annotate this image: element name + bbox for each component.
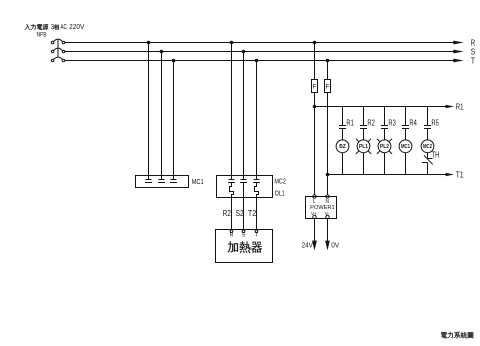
- contact MC1 pole x=148.5: [145, 180, 152, 183]
- wire rail T1: [328, 174, 447, 176]
- load MC2 circle: [421, 140, 434, 153]
- svg-text:POWER1: POWER1: [310, 205, 334, 211]
- svg-text:R: R: [230, 233, 234, 239]
- contactor box MC2 / overload OL1: [217, 176, 273, 198]
- junction node (327.5,60.5): [326, 59, 330, 63]
- breaker NFB (3-pole): [51, 39, 65, 62]
- contact MC2 pole x=256.5: [253, 180, 260, 183]
- wire contact to load BZ: [342, 129, 344, 140]
- wire branch 3 lower: [384, 153, 386, 175]
- wire rail T: [65, 60, 455, 62]
- overload heater OL1 right element + wire T2: [255, 183, 259, 230]
- svg-text:S2: S2: [236, 208, 245, 218]
- junction node (148.5,42.5): [147, 41, 151, 45]
- wire to MC1 contact x=173.5: [173, 61, 175, 180]
- svg-text:F: F: [313, 83, 317, 90]
- svg-text:MC1: MC1: [192, 177, 204, 186]
- wire contact to load PL1: [363, 129, 365, 140]
- junction node (231.5,42.5): [230, 41, 234, 45]
- wire rail R1: [315, 106, 447, 108]
- wire rail S: [65, 51, 455, 53]
- terminal V-: [325, 211, 330, 219]
- load MC1 circle: [399, 140, 412, 153]
- svg-text:T1: T1: [456, 169, 464, 179]
- wire S2 (middle): [243, 183, 245, 230]
- svg-text:F: F: [326, 83, 330, 90]
- wire branch 2 upper: [363, 107, 365, 126]
- wire branch 1 lower: [342, 153, 344, 175]
- wire contact to load MC2: [427, 129, 429, 140]
- wire to MC2 contact x=243.5: [243, 52, 245, 180]
- junction node (173.5,60.5): [172, 59, 176, 63]
- svg-text:BZ: BZ: [339, 144, 346, 150]
- wire contact to load MC1: [405, 129, 407, 140]
- arrowhead rail R: [453, 41, 463, 45]
- svg-text:NFB: NFB: [37, 31, 48, 38]
- junction node (243.5,51.5): [242, 50, 246, 54]
- svg-text:0V: 0V: [331, 242, 339, 249]
- label 加熱器: [228, 242, 263, 254]
- wire MC2 to TH: [427, 153, 429, 159]
- wire branch 3 upper: [384, 107, 386, 126]
- wire branch 4 upper: [405, 107, 407, 126]
- terminal L: [313, 195, 316, 205]
- wire to MC2 contact x=231.5: [231, 43, 233, 180]
- svg-text:MC2: MC2: [274, 177, 286, 186]
- junction node (161.5,51.5): [160, 50, 164, 54]
- svg-text:R5: R5: [431, 118, 439, 128]
- heater terminal circle R: [230, 230, 233, 233]
- wire TH to T1: [427, 163, 429, 175]
- arrowhead T1: [446, 173, 454, 177]
- wire F1 to POWER1 L: [314, 93, 316, 195]
- junction node R1 rail tap: [313, 105, 317, 109]
- wire to MC2 contact x=256.5: [256, 61, 258, 180]
- heater terminal circle T: [255, 230, 258, 233]
- svg-text:R3: R3: [388, 118, 396, 128]
- svg-text:MC2: MC2: [423, 144, 432, 150]
- contact R4: [402, 126, 409, 129]
- junction node (314.5,42.5): [313, 41, 317, 45]
- load PL2 circle: [378, 140, 391, 153]
- contact MC1 pole x=173.5: [170, 180, 177, 183]
- svg-text:PL1: PL1: [359, 144, 368, 150]
- heater terminal circle S: [242, 230, 245, 233]
- contact MC2 pole x=231.5: [228, 180, 235, 183]
- terminal V+: [311, 211, 317, 219]
- svg-text:R2: R2: [223, 208, 232, 218]
- svg-text:T2: T2: [248, 208, 257, 218]
- svg-text:220V: 220V: [69, 22, 84, 31]
- wire to MC1 contact x=161.5: [161, 52, 163, 180]
- contact R5: [424, 126, 431, 129]
- arrowhead 0V: [325, 241, 330, 251]
- contact MC2 pole x=243.5: [240, 180, 247, 183]
- contact R1: [339, 126, 346, 129]
- arrowhead rail S: [453, 50, 463, 54]
- wire branch 1 upper: [342, 107, 344, 126]
- svg-text:R4: R4: [409, 118, 417, 128]
- lamp cross PL1: [356, 139, 371, 154]
- thermal contact TH: [422, 155, 433, 164]
- lamp cross PL2: [377, 139, 392, 154]
- wire contact to load PL2: [384, 129, 386, 140]
- wire rail R: [65, 42, 455, 44]
- junction node (256.5,60.5): [255, 59, 259, 63]
- load BZ circle: [336, 140, 349, 153]
- overload heater OL1 left element + wire R2: [230, 183, 234, 230]
- power supply POWER1 box: [306, 197, 337, 219]
- arrowhead R1: [446, 105, 454, 109]
- arrowhead 24V: [312, 241, 317, 251]
- contactor box MC1: [136, 176, 189, 188]
- arrowhead rail T: [453, 59, 463, 63]
- svg-text:R1: R1: [456, 102, 464, 112]
- wire branch 5 upper: [427, 107, 429, 126]
- fuse F1: [312, 80, 318, 93]
- wire branch 2 lower: [363, 153, 365, 175]
- wire 0V output: [327, 219, 329, 249]
- svg-text:3: 3: [51, 22, 54, 31]
- wire 24V output: [314, 219, 316, 249]
- svg-text:T: T: [471, 56, 475, 66]
- heater box 加熱器: [216, 230, 273, 263]
- svg-text:AC: AC: [60, 22, 67, 31]
- svg-text:OL1: OL1: [275, 189, 285, 198]
- fuse F2: [325, 80, 331, 93]
- junction node T1 rail tap: [326, 173, 330, 177]
- svg-text:R1: R1: [346, 118, 354, 128]
- svg-text:R2: R2: [367, 118, 375, 128]
- wire to MC1 contact x=148.5: [148, 43, 150, 180]
- svg-text:24V: 24V: [302, 242, 314, 249]
- contact R3: [381, 126, 388, 129]
- svg-text:TH: TH: [432, 151, 440, 160]
- contact MC1 pole x=161.5: [158, 180, 165, 183]
- terminal N: [325, 195, 329, 205]
- label title 電力系統圖: [441, 332, 473, 339]
- wire T to fuse F2: [327, 61, 329, 80]
- label: input power 入力電源 3相 AC 220V: [25, 22, 85, 31]
- svg-text:S: S: [242, 233, 246, 239]
- load PL1 circle: [357, 140, 370, 153]
- svg-text:PL2: PL2: [380, 144, 389, 150]
- svg-text:MC1: MC1: [401, 144, 410, 150]
- wire R to fuse F1: [314, 43, 316, 80]
- contact R2: [360, 126, 367, 129]
- wire F2 to POWER1 N: [327, 93, 329, 195]
- wire branch 4 lower: [405, 153, 407, 175]
